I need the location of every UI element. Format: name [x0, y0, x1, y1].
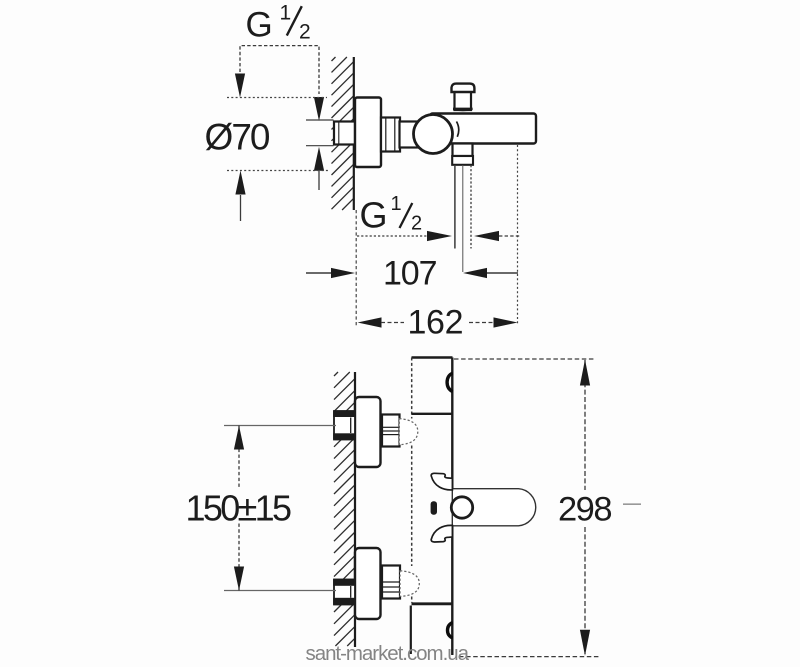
- upper hook of spout: [431, 473, 452, 490]
- wall surface line (front view): [354, 372, 356, 647]
- 298 top reference line: [454, 358, 595, 360]
- shower hose lines: [454, 165, 456, 249]
- G 1/2 inlet nipple (top view): [334, 122, 355, 145]
- body column top edge: [412, 356, 453, 358]
- upper escutcheon flange: [355, 397, 381, 467]
- body divider line upper: [412, 413, 453, 415]
- upper union dome into body: [399, 419, 418, 445]
- lower S-union nut: [382, 566, 400, 599]
- svg-text:1: 1: [391, 193, 402, 215]
- svg-text:2: 2: [411, 213, 422, 235]
- bath spout (front view, U shape): [452, 489, 535, 526]
- upper 150 reference line: [224, 425, 336, 427]
- nipple bottom extension line: [306, 145, 334, 147]
- svg-text:107: 107: [383, 255, 438, 293]
- flange diam bottom reference line: [227, 170, 330, 172]
- dimension text G 1/2 (shower hose): [360, 193, 423, 236]
- body column right edge: [451, 358, 453, 489]
- svg-text:150±15: 150±15: [186, 488, 293, 529]
- svg-text:1: 1: [280, 2, 292, 25]
- upper pipe bump on right edge: [447, 373, 453, 392]
- svg-text:G: G: [246, 6, 273, 45]
- body column left edge lower solid: [410, 606, 412, 655]
- svg-text:162: 162: [408, 304, 464, 342]
- svg-text:Ø70: Ø70: [205, 117, 271, 158]
- hose dim line left part: [357, 235, 427, 237]
- body column left edge (hidden/dashed): [411, 358, 413, 603]
- lower pipe bump on right edge: [448, 622, 453, 638]
- lower hook of spout: [431, 525, 452, 542]
- hose centerline: [462, 165, 464, 272]
- wall reference extension line: [355, 210, 357, 326]
- wall surface line (top view): [353, 57, 355, 210]
- svg-text:sant-market.com.ua: sant-market.com.ua: [306, 642, 470, 665]
- faucet body / spout pipe (top view): [430, 114, 536, 144]
- intersection arc right of circle: [457, 122, 459, 137]
- small dark index mark: [431, 501, 437, 514]
- connector body between nut and thermostat (top view): [400, 122, 434, 148]
- diverter knob stem (top view): [455, 91, 472, 110]
- shower hose nut (top view): [452, 156, 473, 165]
- aerator circle on spout: [451, 497, 472, 518]
- arrow down to flange top line: [235, 74, 245, 98]
- arrow up to flange bottom line: [235, 171, 245, 195]
- dimension 107 left arrow: [306, 272, 332, 274]
- dimension 162 right arrow: [494, 317, 518, 327]
- 298 dim line with arrows: [584, 360, 586, 490]
- flange diam top reference line: [227, 97, 327, 99]
- upper inlet hex nipple: [333, 411, 355, 440]
- svg-text:298: 298: [558, 491, 613, 529]
- diverter knob base flange (dark): [453, 108, 473, 112]
- diverter knob cap (top view): [452, 84, 475, 92]
- svg-text:2: 2: [299, 21, 311, 44]
- upper S-union nut: [382, 415, 400, 447]
- lower inlet hex nipple: [333, 579, 355, 605]
- hose dim line right part: [474, 231, 499, 241]
- lower escutcheon flange: [355, 548, 381, 619]
- wall hatching (top view): [332, 57, 354, 210]
- G1/2 leader bracket: [240, 46, 319, 94]
- body divider line lower: [412, 602, 453, 605]
- shower outlet boss below body (top view): [453, 144, 473, 157]
- wall hatching (front view): [334, 372, 355, 646]
- arrow down to nipple top: [314, 97, 324, 121]
- svg-text:G: G: [360, 195, 388, 236]
- lower 150 reference line: [224, 590, 336, 592]
- escutcheon flange (top view): [355, 98, 381, 168]
- dimension 107 right arrow: [463, 268, 487, 278]
- 150 dim line with arrows: [238, 426, 240, 488]
- dimension text G 1/2 (wall connection): [246, 2, 311, 45]
- hex union nut (top view): [381, 118, 400, 152]
- nipple top extension line: [306, 119, 334, 121]
- arrow up to nipple bottom: [314, 147, 324, 171]
- thermostat handle circle (top view): [414, 115, 453, 154]
- 298 bottom reference line: [459, 656, 599, 658]
- spout outlet reference line (dotted): [517, 145, 519, 325]
- dimension 162 left arrow: [358, 317, 382, 327]
- lower union dome into body: [400, 571, 419, 597]
- stray scan dash: [623, 503, 641, 505]
